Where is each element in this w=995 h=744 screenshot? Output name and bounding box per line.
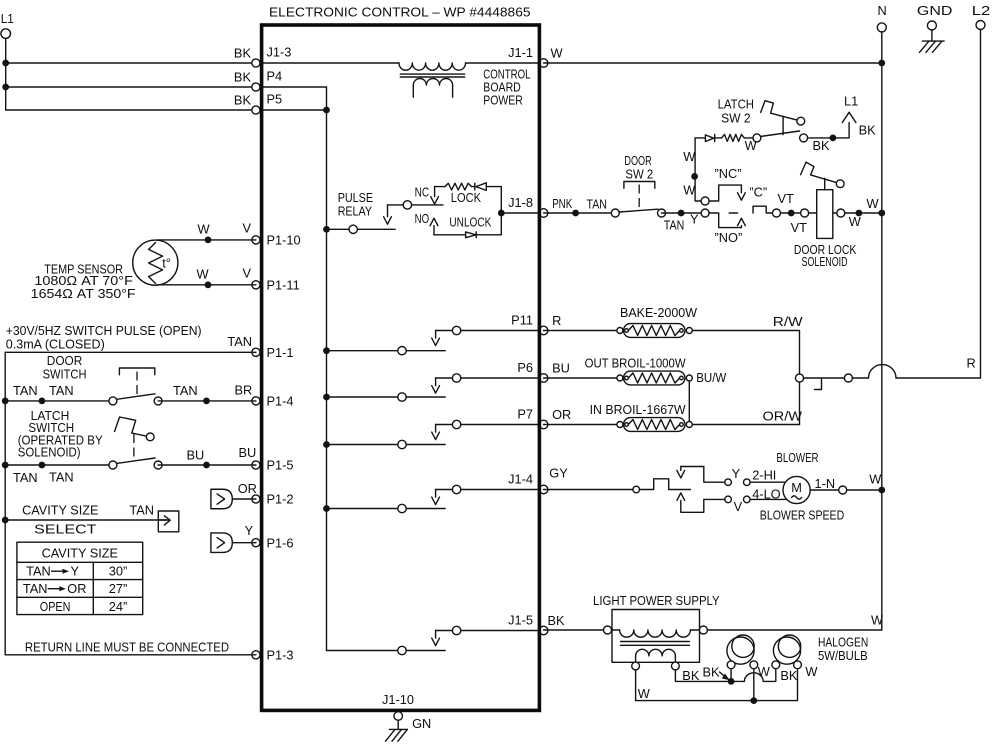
junction blower/N bus — [878, 487, 885, 494]
svg-text:GY: GY — [549, 465, 568, 480]
ground GN chassis — [386, 716, 432, 741]
wire VT — [773, 191, 808, 235]
wire P4 to bus — [256, 87, 327, 110]
ground GND chassis — [919, 41, 944, 52]
svg-text:P5: P5 — [267, 92, 283, 107]
label latch sw 2 — [718, 96, 754, 125]
connector P6 — [517, 360, 548, 383]
label in broil element — [590, 402, 687, 417]
connector P1-2 — [252, 492, 294, 507]
svg-text:CAVITY SIZE: CAVITY SIZE — [42, 546, 118, 561]
junction W branch — [691, 173, 698, 180]
wire motor 1-N — [810, 476, 838, 491]
svg-text:DOOR: DOOR — [624, 153, 651, 168]
light supply left terminal — [604, 626, 612, 634]
junction W/N bus — [878, 60, 885, 67]
svg-text:TAN: TAN — [664, 218, 685, 233]
contact C blade — [729, 185, 767, 213]
svg-text:0.3mA (CLOSED): 0.3mA (CLOSED) — [6, 337, 105, 352]
light power supply box — [612, 610, 700, 663]
svg-text:24”: 24” — [109, 599, 128, 614]
label halogen — [818, 634, 868, 663]
svg-text:TAN: TAN — [49, 469, 74, 484]
connector P4 — [252, 69, 282, 92]
terminal GND — [917, 3, 953, 41]
label latch switch — [18, 408, 103, 460]
connector P1-1 — [252, 345, 294, 360]
svg-text:BU: BU — [239, 445, 257, 460]
svg-text:2-HI: 2-HI — [752, 467, 776, 482]
svg-text:OR: OR — [67, 581, 86, 596]
splice VT — [788, 210, 795, 217]
splice TAN/TAN P1-4 — [39, 398, 46, 405]
connector J1-4 — [508, 471, 548, 494]
wire secondary W — [636, 670, 754, 701]
wire temp sensor P1-10 — [157, 220, 256, 240]
svg-text:W: W — [197, 266, 210, 281]
splice GY — [633, 486, 640, 493]
N bus wire — [881, 32, 883, 630]
svg-text:BK: BK — [234, 93, 252, 108]
svg-text:P1-5: P1-5 — [267, 458, 294, 473]
chevron connector at Y — [211, 523, 256, 553]
door lock solenoid — [801, 162, 845, 238]
svg-text:”NC”: ”NC” — [715, 166, 742, 181]
svg-text:BLOWER SPEED: BLOWER SPEED — [760, 508, 844, 523]
svg-text:J1-1: J1-1 — [508, 45, 533, 60]
svg-text:J1-3: J1-3 — [267, 45, 292, 60]
svg-text:RETURN LINE MUST BE CONNECTED: RETURN LINE MUST BE CONNECTED — [25, 639, 229, 654]
label door switch — [43, 353, 87, 382]
svg-text:BLOWER: BLOWER — [776, 450, 818, 465]
connector P1-10 — [252, 233, 301, 248]
svg-text:W: W — [638, 686, 651, 701]
label door sw 2 — [624, 153, 653, 182]
splice BK latch — [830, 135, 837, 142]
control box — [262, 25, 540, 710]
svg-text:VT: VT — [791, 220, 808, 235]
wire out broil down — [689, 370, 727, 422]
temp sensor RT1 — [133, 240, 178, 285]
svg-text:P1-1: P1-1 — [267, 345, 294, 360]
svg-text:ELECTRONIC CONTROL – WP #44488: ELECTRONIC CONTROL – WP #4448865 — [269, 4, 531, 19]
pulse relay common — [327, 225, 396, 233]
splice W/V P1-11 — [205, 281, 212, 288]
svg-text:P1-10: P1-10 — [267, 233, 301, 248]
svg-text:L1: L1 — [844, 93, 858, 108]
relay K3 (P7) — [323, 420, 539, 448]
svg-text:NC: NC — [415, 184, 430, 199]
svg-text:”C”: ”C” — [749, 185, 767, 200]
bus wire — [326, 110, 328, 651]
svg-text:P1-6: P1-6 — [267, 535, 294, 550]
svg-text:J1-8: J1-8 — [508, 195, 533, 210]
svg-text:SOLENOID): SOLENOID) — [18, 445, 81, 460]
svg-text:GN: GN — [412, 716, 431, 731]
labels bulbs — [758, 664, 819, 683]
wire L1 feeder — [5, 38, 7, 110]
svg-text:W: W — [758, 664, 771, 679]
wire latch branch — [695, 137, 705, 139]
label light power supply — [593, 593, 720, 608]
svg-text:W: W — [198, 221, 211, 236]
svg-text:TAN: TAN — [587, 196, 608, 211]
relay K4 (J1-4) — [323, 485, 539, 512]
wire J1-5 BK — [544, 613, 604, 630]
svg-text:P1-3: P1-3 — [267, 647, 294, 662]
svg-text:P11: P11 — [511, 312, 533, 327]
svg-text:V: V — [243, 265, 252, 280]
connector P1-4 — [252, 394, 294, 409]
junction BK bulb1 — [728, 669, 735, 685]
wire latch switch left — [5, 464, 113, 466]
wire transformer to J1-1 — [466, 62, 540, 64]
light secondary terminals — [632, 662, 680, 670]
cavity size table — [17, 542, 143, 614]
wire door switch right BR — [158, 400, 256, 402]
svg-text:UNLOCK: UNLOCK — [449, 214, 491, 229]
junction lock/unlock J1-8 — [498, 210, 540, 217]
svg-text:TAN: TAN — [227, 334, 252, 349]
svg-text:J1-5: J1-5 — [508, 612, 533, 627]
svg-text:W: W — [871, 613, 884, 628]
connector P1-5 — [252, 458, 294, 473]
svg-text:”NO”: ”NO” — [715, 230, 743, 245]
lock branch NC — [415, 183, 502, 213]
light transformer — [612, 630, 700, 662]
connector J1-10 — [382, 692, 414, 720]
label switch pulse — [6, 323, 252, 352]
in broil element — [617, 418, 692, 432]
svg-text:BK: BK — [703, 665, 721, 680]
svg-text:TAN: TAN — [129, 502, 154, 517]
wire return line P1-3 — [5, 654, 256, 656]
wire J1-3 row BK — [6, 46, 256, 64]
svg-text:OR: OR — [238, 481, 257, 496]
svg-text:BU: BU — [187, 448, 205, 463]
svg-text:P4: P4 — [267, 69, 283, 84]
svg-text:W: W — [683, 149, 696, 164]
svg-text:SELECT: SELECT — [34, 521, 97, 536]
cavity select connector — [158, 511, 179, 532]
wire W branch — [683, 138, 701, 201]
wire light supply W to N — [707, 613, 884, 630]
svg-text:IN BROIL-1667W: IN BROIL-1667W — [590, 402, 687, 417]
junction bulbs W — [750, 697, 757, 704]
wire P7 OR — [544, 407, 620, 425]
labels blower contacts — [732, 466, 781, 514]
svg-text:RELAY: RELAY — [338, 203, 373, 218]
svg-text:BK: BK — [548, 613, 566, 628]
svg-text:BU/W: BU/W — [696, 370, 727, 385]
junction rail P1-4 — [2, 398, 9, 405]
wire J1-1 W to N — [544, 46, 882, 63]
L2 bus wire — [896, 30, 981, 379]
connector P1-6 — [252, 535, 294, 550]
svg-text:SW 2: SW 2 — [721, 110, 751, 125]
svg-text:BR: BR — [235, 382, 253, 397]
label out broil element — [585, 356, 687, 371]
halogen bulb 2 — [772, 635, 802, 669]
wire J1-3 to transformer — [256, 62, 399, 64]
connector P1-3 — [252, 647, 294, 662]
svg-text:BAKE-2000W: BAKE-2000W — [620, 305, 698, 320]
svg-text:BK: BK — [682, 668, 700, 683]
svg-text:BU: BU — [552, 360, 570, 375]
svg-text:PNK: PNK — [552, 196, 572, 211]
blower selector hi — [677, 467, 785, 486]
labels latch switch row — [13, 445, 256, 485]
svg-text:Y: Y — [245, 523, 254, 538]
junction rail cavity — [2, 517, 9, 524]
splice PNK/TAN — [572, 210, 579, 217]
svg-text:POWER: POWER — [483, 93, 523, 108]
label temp sensor — [31, 261, 136, 301]
junction bus/pulse relay — [323, 226, 330, 233]
label blower speed — [760, 508, 844, 523]
latch switch S2 — [109, 417, 162, 469]
relay K1 (P11) — [323, 326, 539, 355]
svg-text:TAN: TAN — [26, 564, 51, 579]
junction rail P1-5 — [2, 462, 9, 469]
svg-text:TAN: TAN — [49, 383, 74, 398]
svg-text:Y: Y — [690, 212, 699, 227]
svg-text:5W/BULB: 5W/BULB — [818, 648, 868, 663]
svg-text:TAN: TAN — [13, 383, 38, 398]
bake element — [617, 324, 692, 338]
svg-text:BK: BK — [780, 668, 798, 683]
unlock branch NO — [415, 211, 502, 238]
thermal switch — [796, 374, 853, 390]
svg-text:OR: OR — [552, 407, 571, 422]
label control board power — [483, 67, 530, 108]
wire blower common — [640, 479, 691, 490]
svg-text:P1-11: P1-11 — [267, 277, 300, 292]
svg-text:V: V — [734, 499, 743, 514]
svg-text:SOLENOID: SOLENOID — [802, 254, 848, 269]
svg-text:TAN: TAN — [23, 581, 48, 596]
label BK arrow — [703, 665, 730, 681]
svg-text:Y: Y — [732, 466, 741, 481]
svg-text:30”: 30” — [109, 564, 128, 579]
wire P1-1 row TAN — [5, 351, 256, 353]
svg-text:BK: BK — [813, 138, 831, 153]
splice TAN/TAN P1-5 — [39, 462, 46, 469]
label cavity select — [22, 502, 154, 536]
left rail wire — [4, 352, 6, 655]
svg-text:R: R — [552, 313, 561, 328]
svg-text:P7: P7 — [517, 406, 533, 421]
svg-text:W: W — [805, 664, 818, 679]
svg-text:BK: BK — [234, 46, 252, 61]
connector J1-1 — [508, 45, 548, 68]
svg-text:L2: L2 — [972, 3, 991, 18]
wire P5 to bus — [256, 109, 327, 111]
junction L1/J1-3 — [2, 60, 9, 67]
svg-text:Y: Y — [71, 564, 80, 579]
pulse relay contact — [384, 201, 443, 225]
svg-text:R/W: R/W — [773, 314, 804, 329]
svg-text:W: W — [867, 196, 880, 211]
svg-text:P1-4: P1-4 — [267, 394, 294, 409]
splice W/V P1-10 — [205, 237, 212, 244]
wire J1-10 ground — [397, 720, 399, 729]
wire door sw2 Y — [662, 212, 702, 233]
connector P1-11 — [252, 277, 300, 292]
svg-text:BK: BK — [234, 70, 252, 85]
svg-text:VT: VT — [778, 191, 795, 206]
connector P11 — [511, 312, 548, 335]
diode latch branch — [705, 134, 721, 141]
junction door lock/N bus — [878, 210, 885, 217]
transformer T1 control board power — [399, 63, 465, 97]
svg-text:SWITCH: SWITCH — [43, 366, 87, 381]
svg-text:W: W — [551, 46, 564, 61]
svg-text:LOCK: LOCK — [451, 190, 482, 205]
connector P5 — [252, 92, 282, 115]
svg-text:TAN: TAN — [173, 383, 198, 398]
resistor latch branch — [722, 134, 758, 153]
arrow to L1 — [842, 93, 858, 122]
svg-text:CAVITY SIZE: CAVITY SIZE — [22, 502, 98, 517]
wire temp sensor P1-11 — [157, 265, 256, 284]
wire J1-4 GY — [544, 465, 633, 489]
light supply right terminal — [699, 626, 707, 634]
wire P11 R — [544, 313, 620, 331]
junction L1/P4 — [2, 84, 9, 91]
wire BK hump — [744, 669, 775, 682]
connector J1-5 — [508, 612, 548, 635]
wire door switch left — [5, 400, 113, 402]
connector J1-3 — [252, 45, 292, 68]
blower selector lo — [677, 493, 787, 512]
svg-text:J1-4: J1-4 — [508, 471, 533, 486]
wire hump over N — [853, 355, 976, 378]
latch switch SW2 — [753, 101, 808, 142]
wire secondary BK — [675, 668, 744, 683]
wire J1-8 PNK — [544, 196, 613, 213]
svg-text:L1: L1 — [1, 11, 14, 26]
wire bulb1 W down — [753, 669, 755, 701]
svg-text:R: R — [967, 355, 976, 370]
svg-text:TAN: TAN — [13, 470, 38, 485]
svg-text:27”: 27” — [109, 581, 128, 596]
blower motor M — [783, 476, 810, 503]
terminal L2 — [972, 3, 991, 30]
door switch S1 — [109, 368, 162, 405]
svg-text:1-N: 1-N — [815, 476, 836, 491]
relay K2 (P6) — [323, 374, 539, 401]
relay K5 (J1-5) — [327, 626, 540, 654]
wire P4 row BK — [6, 70, 256, 88]
splice TAN/BR P1-4 — [203, 398, 210, 405]
svg-text:OPEN: OPEN — [40, 599, 71, 614]
door lock cam notch — [753, 206, 772, 213]
terminal N — [877, 3, 886, 32]
svg-text:J1-10: J1-10 — [382, 692, 414, 707]
connector P7 — [517, 406, 548, 429]
label door lock solenoid — [794, 242, 857, 269]
svg-text:P1-2: P1-2 — [267, 492, 294, 507]
wire latch to L1 BK — [808, 122, 877, 153]
label pulse relay — [338, 190, 373, 218]
wire in broil OR/W — [692, 408, 803, 424]
wire P5 row BK — [6, 93, 256, 111]
halogen bulb 1 — [727, 635, 758, 669]
splice 1-N W — [839, 471, 883, 494]
svg-text:LATCH: LATCH — [718, 96, 754, 111]
svg-text:t°: t° — [162, 255, 171, 270]
svg-text:M: M — [791, 480, 802, 495]
svg-text:OR/W: OR/W — [763, 408, 804, 423]
wire bake R/W — [692, 314, 803, 425]
svg-text:NO: NO — [415, 211, 430, 226]
terminal L1 — [1, 11, 14, 38]
svg-text:N: N — [878, 3, 887, 18]
out broil element — [617, 371, 692, 385]
label bake element — [620, 305, 698, 320]
svg-text:V: V — [243, 220, 252, 235]
wire bulb2 W down — [754, 669, 798, 701]
wire P6 BU — [544, 360, 620, 378]
svg-text:LIGHT POWER SUPPLY: LIGHT POWER SUPPLY — [593, 593, 720, 608]
title electronic control — [269, 4, 531, 19]
label blower — [776, 450, 818, 465]
svg-text:OUT BROIL-1000W: OUT BROIL-1000W — [585, 356, 687, 371]
wire cavity select TAN — [5, 519, 169, 521]
wire latch switch right BU — [158, 464, 256, 466]
svg-text:SW 2: SW 2 — [625, 167, 653, 182]
svg-text:W: W — [683, 183, 696, 198]
door switch SW2 — [611, 182, 665, 218]
label return line — [25, 639, 229, 654]
svg-text:1654Ω AT 350°F: 1654Ω AT 350°F — [31, 286, 136, 301]
svg-text:W: W — [869, 471, 882, 486]
chevron connector at OR — [211, 481, 257, 509]
labels door switch row — [13, 382, 252, 398]
splice BU P1-5 — [203, 462, 210, 469]
splice W — [856, 210, 863, 217]
svg-text:BK: BK — [859, 122, 877, 137]
svg-text:4-LO: 4-LO — [752, 486, 780, 501]
splice TAN/Y — [678, 210, 685, 217]
connector J1-8 — [508, 195, 548, 218]
svg-text:GND: GND — [917, 3, 953, 18]
svg-text:P6: P6 — [517, 360, 533, 375]
contact NC side — [701, 166, 745, 205]
wire solenoid W to N — [837, 196, 882, 229]
junction bus/P5 — [323, 107, 330, 114]
contact NO side — [701, 209, 745, 245]
